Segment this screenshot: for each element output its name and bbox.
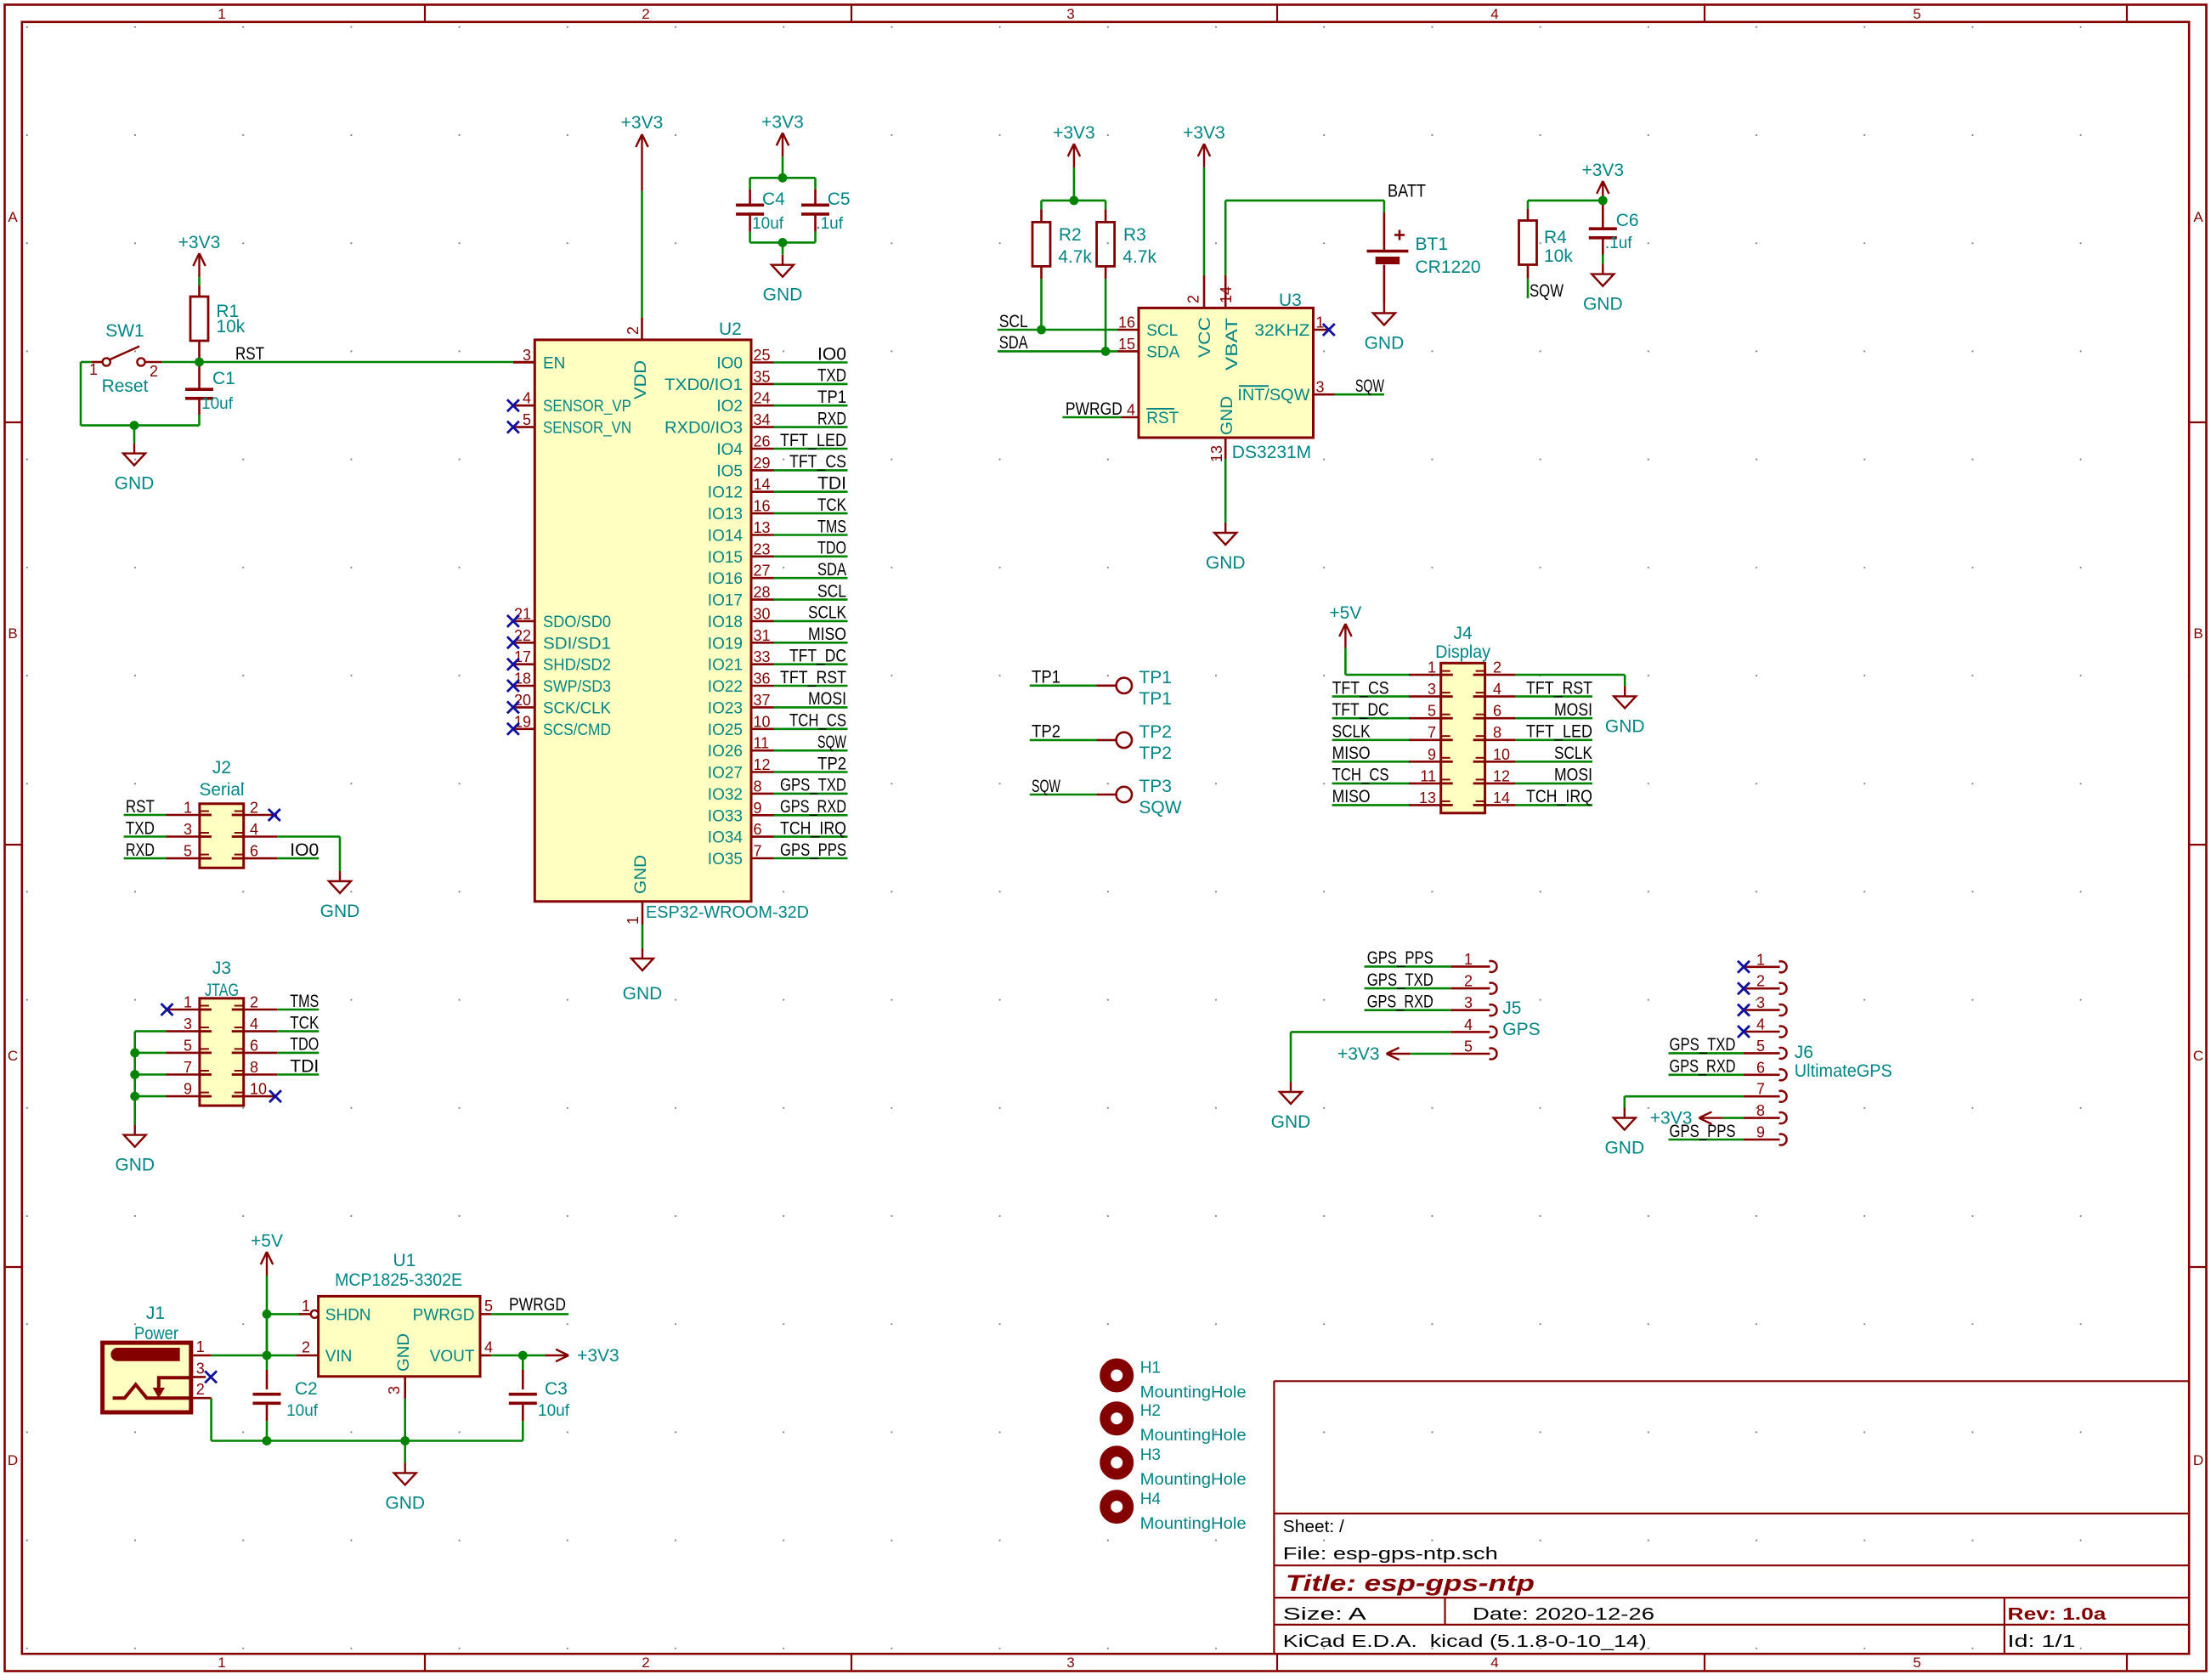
svg-text:5: 5 — [184, 1037, 192, 1054]
svg-text:SW1: SW1 — [105, 321, 144, 341]
svg-text:4: 4 — [1756, 1016, 1765, 1033]
svg-text:Power: Power — [134, 1324, 178, 1343]
svg-text:IO27: IO27 — [708, 765, 743, 783]
svg-text:IO0: IO0 — [290, 840, 319, 860]
svg-text:EN: EN — [543, 355, 565, 373]
svg-text:25: 25 — [754, 347, 771, 364]
svg-text:8: 8 — [1756, 1102, 1765, 1119]
svg-text:TP1: TP1 — [1139, 689, 1172, 709]
svg-text:13: 13 — [1419, 789, 1436, 806]
svg-text:GND: GND — [1365, 334, 1405, 354]
svg-text:1: 1 — [218, 1655, 225, 1671]
svg-text:TFT_RST: TFT_RST — [1526, 678, 1592, 698]
svg-text:DS3231M: DS3231M — [1232, 443, 1311, 462]
svg-text:R4: R4 — [1544, 228, 1567, 247]
svg-text:33: 33 — [754, 648, 771, 665]
svg-text:+3V3: +3V3 — [1581, 161, 1624, 180]
svg-text:26: 26 — [754, 433, 771, 450]
svg-text:3: 3 — [523, 347, 531, 364]
svg-text:TFT_DC: TFT_DC — [789, 647, 846, 666]
svg-text:5: 5 — [1428, 703, 1436, 720]
svg-text:GPS_TXD: GPS_TXD — [1367, 970, 1433, 990]
svg-text:10k: 10k — [1544, 246, 1573, 266]
svg-text:4: 4 — [1464, 1016, 1473, 1033]
svg-text:J1: J1 — [146, 1304, 165, 1323]
svg-text:IO25: IO25 — [708, 721, 743, 739]
svg-text:RST: RST — [126, 797, 155, 817]
svg-text:10uf: 10uf — [201, 395, 234, 413]
svg-text:GND: GND — [395, 1333, 413, 1372]
svg-text:TP3: TP3 — [1139, 777, 1172, 796]
svg-text:TFT_RST: TFT_RST — [780, 668, 846, 687]
svg-text:A: A — [2193, 209, 2203, 225]
svg-text:MISO: MISO — [1332, 787, 1371, 806]
svg-text:1: 1 — [1316, 314, 1325, 331]
svg-text:TP1: TP1 — [817, 387, 846, 407]
svg-text:4: 4 — [250, 821, 258, 838]
svg-text:File: esp-gps-ntp.sch: File: esp-gps-ntp.sch — [1283, 1545, 1498, 1564]
svg-text:TDO: TDO — [817, 539, 846, 558]
svg-text:SDI/SD1: SDI/SD1 — [543, 635, 611, 653]
svg-text:MISO: MISO — [1332, 744, 1371, 763]
svg-text:1: 1 — [184, 994, 192, 1011]
svg-text:2: 2 — [625, 326, 642, 335]
svg-text:3: 3 — [1316, 379, 1325, 396]
svg-text:4: 4 — [1490, 1655, 1498, 1671]
svg-text:IO16: IO16 — [708, 570, 743, 588]
svg-text:10uf: 10uf — [752, 215, 784, 233]
svg-text:32KHZ: 32KHZ — [1254, 322, 1309, 340]
svg-text:5: 5 — [1913, 1655, 1920, 1671]
svg-text:.1uf: .1uf — [1605, 235, 1632, 252]
svg-text:VBAT: VBAT — [1224, 317, 1241, 371]
svg-text:GND: GND — [623, 984, 663, 1004]
svg-text:31: 31 — [754, 627, 771, 644]
svg-text:14: 14 — [754, 476, 771, 493]
svg-text:3: 3 — [386, 1386, 403, 1394]
svg-text:SCLK: SCLK — [808, 603, 846, 623]
svg-text:22: 22 — [514, 627, 531, 644]
svg-text:GND: GND — [115, 474, 155, 494]
svg-text:+5V: +5V — [251, 1231, 283, 1251]
svg-text:TDO: TDO — [290, 1035, 319, 1055]
svg-text:Display: Display — [1435, 642, 1490, 662]
svg-text:2: 2 — [642, 1655, 649, 1671]
svg-text:16: 16 — [754, 498, 771, 515]
svg-text:IO22: IO22 — [708, 678, 743, 696]
svg-text:4: 4 — [1127, 402, 1135, 419]
svg-text:1: 1 — [1428, 659, 1436, 676]
svg-text:TP1: TP1 — [1139, 668, 1172, 687]
svg-text:MCP1825-3302E: MCP1825-3302E — [335, 1270, 462, 1290]
svg-text:VIN: VIN — [325, 1348, 353, 1366]
svg-text:4: 4 — [250, 1015, 258, 1032]
svg-text:TXD: TXD — [126, 818, 155, 838]
svg-text:TP1: TP1 — [1032, 668, 1060, 687]
svg-text:5: 5 — [1756, 1038, 1765, 1055]
svg-text:1: 1 — [218, 6, 225, 22]
svg-text:B: B — [8, 625, 17, 642]
svg-text:GND: GND — [1604, 1139, 1644, 1158]
svg-text:RXD: RXD — [817, 409, 846, 428]
svg-text:3: 3 — [196, 1360, 205, 1377]
svg-text:GPS: GPS — [1502, 1020, 1540, 1039]
svg-text:SQW: SQW — [1032, 777, 1060, 796]
svg-text:2: 2 — [250, 994, 258, 1011]
svg-text:TP2: TP2 — [1139, 722, 1172, 742]
svg-text:10uf: 10uf — [286, 1402, 319, 1420]
svg-text:2: 2 — [642, 6, 649, 22]
svg-text:TDI: TDI — [290, 1056, 319, 1076]
svg-text:IO34: IO34 — [708, 829, 744, 847]
svg-text:4: 4 — [1493, 681, 1501, 698]
svg-text:GND: GND — [320, 902, 360, 921]
svg-text:INT/SQW: INT/SQW — [1237, 387, 1309, 404]
svg-text:1: 1 — [625, 916, 642, 925]
svg-text:3: 3 — [184, 1015, 192, 1032]
svg-text:GPS_PPS: GPS_PPS — [780, 840, 846, 860]
svg-text:SHD/SD2: SHD/SD2 — [543, 657, 611, 675]
svg-text:13: 13 — [754, 519, 771, 536]
svg-text:SWP/SD3: SWP/SD3 — [543, 678, 611, 696]
svg-text:IO23: IO23 — [708, 699, 743, 717]
svg-text:4: 4 — [1490, 6, 1498, 22]
svg-text:J6: J6 — [1795, 1043, 1813, 1062]
svg-text:1: 1 — [184, 800, 192, 817]
svg-text:U1: U1 — [393, 1251, 416, 1270]
svg-text:J3: J3 — [212, 959, 231, 978]
svg-text:19: 19 — [514, 713, 531, 730]
svg-text:TFT_LED: TFT_LED — [780, 431, 846, 450]
svg-text:9: 9 — [1756, 1124, 1765, 1141]
svg-text:+5V: +5V — [1329, 603, 1361, 623]
svg-text:SCS/CMD: SCS/CMD — [543, 721, 611, 739]
svg-text:2: 2 — [250, 800, 258, 817]
svg-text:VDD: VDD — [632, 360, 650, 399]
svg-text:C6: C6 — [1616, 211, 1639, 230]
svg-text:IO14: IO14 — [708, 528, 744, 546]
svg-text:IO13: IO13 — [708, 506, 743, 523]
svg-text:MOSI: MOSI — [1554, 766, 1592, 785]
svg-text:D: D — [2193, 1452, 2203, 1468]
svg-text:5: 5 — [484, 1298, 493, 1315]
svg-text:27: 27 — [754, 563, 771, 580]
svg-text:IO35: IO35 — [708, 851, 743, 868]
svg-text:Reset: Reset — [102, 376, 149, 396]
svg-text:C: C — [8, 1048, 18, 1064]
svg-text:1: 1 — [1464, 951, 1473, 968]
svg-text:6: 6 — [250, 843, 258, 860]
svg-text:3: 3 — [1756, 994, 1765, 1011]
svg-text:.1uf: .1uf — [816, 215, 843, 233]
svg-text:34: 34 — [754, 411, 771, 428]
svg-text:9: 9 — [1428, 746, 1436, 763]
svg-text:TCH_IRQ: TCH_IRQ — [1526, 787, 1592, 806]
svg-text:MOSI: MOSI — [808, 689, 846, 709]
svg-text:GPS_RXD: GPS_RXD — [1670, 1057, 1736, 1077]
svg-text:H4: H4 — [1140, 1491, 1162, 1508]
svg-text:TP2: TP2 — [1032, 722, 1060, 742]
svg-text:MountingHole: MountingHole — [1140, 1384, 1247, 1402]
svg-text:TXD0/IO1: TXD0/IO1 — [664, 376, 743, 394]
svg-text:14: 14 — [1493, 789, 1510, 806]
svg-text:23: 23 — [754, 540, 771, 557]
svg-text:GND: GND — [385, 1493, 425, 1513]
svg-text:PWRGD: PWRGD — [1066, 399, 1122, 419]
svg-text:+3V3: +3V3 — [1337, 1044, 1380, 1064]
svg-text:GND: GND — [763, 286, 803, 305]
svg-text:TP2: TP2 — [817, 754, 846, 773]
svg-text:RXD0/IO3: RXD0/IO3 — [664, 420, 743, 438]
svg-text:5: 5 — [184, 843, 192, 860]
svg-text:SQW: SQW — [1530, 281, 1564, 301]
svg-text:IO32: IO32 — [708, 786, 743, 804]
svg-text:2: 2 — [1493, 659, 1501, 676]
svg-text:MountingHole: MountingHole — [1140, 1471, 1247, 1489]
svg-text:3: 3 — [184, 821, 192, 838]
svg-text:U3: U3 — [1279, 291, 1302, 310]
svg-text:SCL: SCL — [999, 312, 1028, 331]
svg-text:24: 24 — [754, 390, 771, 407]
svg-text:+3V3: +3V3 — [1183, 123, 1225, 143]
svg-text:15: 15 — [1118, 336, 1135, 353]
svg-text:5: 5 — [1464, 1038, 1473, 1055]
svg-text:RXD: RXD — [126, 840, 155, 860]
svg-text:SHDN: SHDN — [325, 1307, 371, 1325]
svg-text:17: 17 — [514, 648, 531, 665]
svg-text:MountingHole: MountingHole — [1140, 1515, 1247, 1533]
svg-text:+3V3: +3V3 — [621, 113, 664, 133]
svg-text:C: C — [2193, 1048, 2203, 1064]
svg-text:SQW: SQW — [1355, 376, 1384, 396]
svg-text:+3V3: +3V3 — [1650, 1109, 1693, 1128]
svg-text:IO12: IO12 — [708, 484, 743, 502]
svg-text:IO0: IO0 — [817, 344, 846, 364]
svg-text:UltimateGPS: UltimateGPS — [1795, 1061, 1892, 1081]
svg-text:2: 2 — [1185, 295, 1202, 303]
svg-text:4: 4 — [523, 390, 531, 407]
svg-text:7: 7 — [1756, 1081, 1765, 1098]
svg-text:IO17: IO17 — [708, 592, 743, 610]
svg-text:6: 6 — [754, 821, 762, 838]
svg-text:3: 3 — [1464, 994, 1473, 1011]
svg-text:3: 3 — [1066, 6, 1074, 22]
svg-text:GND: GND — [1219, 396, 1236, 435]
svg-text:JTAG: JTAG — [205, 981, 239, 1000]
svg-text:TFT_CS: TFT_CS — [789, 452, 846, 472]
svg-text:C3: C3 — [545, 1379, 568, 1399]
svg-text:2: 2 — [302, 1339, 310, 1356]
svg-text:Sheet: /: Sheet: / — [1283, 1518, 1344, 1536]
svg-text:+3V3: +3V3 — [577, 1346, 619, 1366]
svg-text:IO2: IO2 — [716, 398, 743, 416]
svg-text:H2: H2 — [1140, 1402, 1161, 1420]
svg-text:TCH_CS: TCH_CS — [789, 711, 846, 731]
svg-text:VOUT: VOUT — [430, 1348, 475, 1366]
svg-text:16: 16 — [1118, 314, 1135, 331]
svg-text:IO15: IO15 — [708, 549, 743, 567]
svg-text:R2: R2 — [1059, 225, 1082, 245]
svg-text:PWRGD: PWRGD — [413, 1307, 475, 1325]
svg-text:1: 1 — [302, 1298, 310, 1315]
svg-text:9: 9 — [754, 800, 762, 817]
svg-text:J2: J2 — [212, 758, 231, 778]
svg-text:IO21: IO21 — [708, 657, 743, 675]
svg-text:12: 12 — [1493, 767, 1510, 784]
svg-text:SENSOR_VN: SENSOR_VN — [543, 420, 631, 438]
svg-text:2: 2 — [1756, 973, 1765, 990]
svg-text:28: 28 — [754, 584, 771, 601]
svg-text:B: B — [2193, 625, 2203, 642]
svg-text:BT1: BT1 — [1416, 235, 1449, 254]
svg-text:RST: RST — [1146, 410, 1179, 427]
svg-text:GPS_TXD: GPS_TXD — [780, 776, 846, 795]
svg-text:4.7k: 4.7k — [1122, 247, 1156, 267]
svg-text:MOSI: MOSI — [1554, 700, 1592, 720]
svg-text:MISO: MISO — [808, 625, 846, 644]
svg-text:35: 35 — [754, 368, 771, 385]
svg-text:10k: 10k — [216, 317, 245, 337]
svg-text:R3: R3 — [1123, 225, 1146, 245]
svg-text:9: 9 — [184, 1081, 192, 1098]
svg-text:SCLK: SCLK — [1332, 722, 1371, 742]
svg-text:VCC: VCC — [1196, 317, 1214, 358]
svg-text:5: 5 — [1913, 6, 1920, 22]
svg-text:Date: 2020-12-26: Date: 2020-12-26 — [1473, 1605, 1654, 1624]
svg-text:6: 6 — [250, 1037, 258, 1054]
svg-text:11: 11 — [754, 735, 770, 752]
svg-text:10: 10 — [1493, 746, 1510, 763]
svg-text:2: 2 — [1464, 973, 1473, 990]
svg-text:TP2: TP2 — [1139, 744, 1172, 763]
svg-text:GND: GND — [1206, 553, 1246, 573]
svg-text:29: 29 — [754, 455, 771, 472]
svg-text:SQW: SQW — [1139, 798, 1181, 817]
svg-text:37: 37 — [754, 692, 771, 709]
svg-text:SCL: SCL — [1146, 322, 1178, 340]
svg-text:SDA: SDA — [1146, 343, 1179, 361]
svg-text:D: D — [8, 1452, 18, 1468]
svg-text:SDA: SDA — [999, 333, 1028, 353]
svg-text:CR1220: CR1220 — [1416, 257, 1481, 277]
svg-text:IO18: IO18 — [708, 614, 743, 631]
svg-text:U2: U2 — [719, 320, 742, 339]
svg-text:8: 8 — [250, 1059, 258, 1076]
svg-text:SDA: SDA — [817, 560, 846, 580]
svg-text:TDI: TDI — [817, 474, 846, 494]
svg-text:7: 7 — [184, 1059, 192, 1076]
svg-text:SCL: SCL — [817, 581, 846, 601]
svg-text:10uf: 10uf — [538, 1402, 570, 1420]
svg-text:SQW: SQW — [817, 733, 846, 752]
svg-text:12: 12 — [754, 756, 771, 773]
svg-text:TMS: TMS — [290, 992, 319, 1011]
svg-text:TCK: TCK — [290, 1013, 319, 1032]
svg-text:5: 5 — [523, 411, 531, 428]
svg-text:A: A — [8, 209, 18, 225]
svg-text:2: 2 — [150, 363, 158, 380]
svg-text:C2: C2 — [295, 1379, 318, 1399]
svg-text:+3V3: +3V3 — [761, 112, 804, 132]
svg-text:10: 10 — [754, 713, 771, 730]
svg-text:GPS_RXD: GPS_RXD — [1367, 993, 1433, 1012]
svg-text:4: 4 — [484, 1339, 493, 1356]
svg-text:6: 6 — [1493, 703, 1501, 720]
svg-text:TFT_CS: TFT_CS — [1332, 678, 1389, 698]
svg-text:8: 8 — [754, 778, 762, 795]
svg-text:IO5: IO5 — [716, 462, 743, 480]
svg-text:GND: GND — [632, 855, 650, 894]
svg-text:TCH_IRQ: TCH_IRQ — [780, 818, 846, 838]
svg-text:4.7k: 4.7k — [1058, 247, 1092, 267]
svg-text:1: 1 — [1756, 951, 1765, 968]
svg-text:IO19: IO19 — [708, 635, 743, 653]
svg-text:J5: J5 — [1502, 998, 1521, 1018]
svg-text:C5: C5 — [828, 189, 851, 209]
svg-text:C1: C1 — [212, 369, 235, 388]
svg-text:14: 14 — [1218, 286, 1235, 303]
svg-text:RST: RST — [235, 344, 264, 364]
svg-text:Title: esp-gps-ntp: Title: esp-gps-ntp — [1286, 1570, 1535, 1596]
svg-text:SENSOR_VP: SENSOR_VP — [543, 398, 631, 416]
svg-text:20: 20 — [514, 692, 531, 709]
svg-text:GND: GND — [1271, 1112, 1311, 1132]
svg-text:IO26: IO26 — [708, 743, 743, 761]
svg-text:13: 13 — [1208, 445, 1225, 462]
svg-text:Rev: 1.0a: Rev: 1.0a — [2008, 1605, 2107, 1624]
svg-text:10: 10 — [250, 1081, 267, 1098]
svg-text:+3V3: +3V3 — [1053, 123, 1095, 143]
svg-text:Size: A: Size: A — [1283, 1605, 1367, 1624]
svg-text:SDO/SD0: SDO/SD0 — [543, 614, 611, 631]
svg-text:Serial: Serial — [200, 780, 245, 800]
svg-text:+3V3: +3V3 — [178, 233, 221, 252]
svg-text:SCLK: SCLK — [1554, 744, 1592, 763]
svg-text:IO0: IO0 — [716, 355, 743, 373]
svg-text:TMS: TMS — [817, 517, 846, 536]
svg-text:J4: J4 — [1454, 624, 1473, 643]
svg-text:1: 1 — [196, 1338, 205, 1355]
svg-text:2: 2 — [196, 1381, 205, 1398]
svg-text:SCK/CLK: SCK/CLK — [543, 699, 611, 717]
svg-text:GND: GND — [1583, 295, 1623, 314]
svg-text:3: 3 — [1066, 1655, 1074, 1671]
svg-text:IO33: IO33 — [708, 807, 743, 825]
svg-text:18: 18 — [514, 670, 531, 687]
svg-text:IO4: IO4 — [716, 441, 743, 459]
svg-text:6: 6 — [1756, 1059, 1765, 1076]
svg-text:TXD: TXD — [817, 366, 846, 386]
svg-text:PWRGD: PWRGD — [509, 1295, 566, 1315]
svg-text:36: 36 — [754, 670, 771, 687]
svg-text:30: 30 — [754, 605, 771, 622]
svg-text:TFT_DC: TFT_DC — [1332, 700, 1389, 720]
svg-text:11: 11 — [1420, 767, 1436, 784]
svg-text:TCK: TCK — [817, 495, 846, 515]
svg-text:H3: H3 — [1140, 1446, 1161, 1464]
svg-text:GPS_RXD: GPS_RXD — [780, 797, 846, 817]
svg-text:GND: GND — [1605, 716, 1645, 736]
svg-text:C4: C4 — [762, 189, 785, 209]
svg-text:GND: GND — [115, 1156, 155, 1175]
svg-text:1: 1 — [89, 361, 98, 378]
svg-text:7: 7 — [754, 843, 762, 860]
svg-text:TFT_LED: TFT_LED — [1526, 722, 1592, 742]
svg-text:7: 7 — [1428, 724, 1436, 741]
svg-text:Id: 1/1: Id: 1/1 — [2008, 1632, 2076, 1651]
svg-text:H1: H1 — [1140, 1360, 1161, 1377]
svg-text:ESP32-WROOM-32D: ESP32-WROOM-32D — [646, 903, 809, 922]
